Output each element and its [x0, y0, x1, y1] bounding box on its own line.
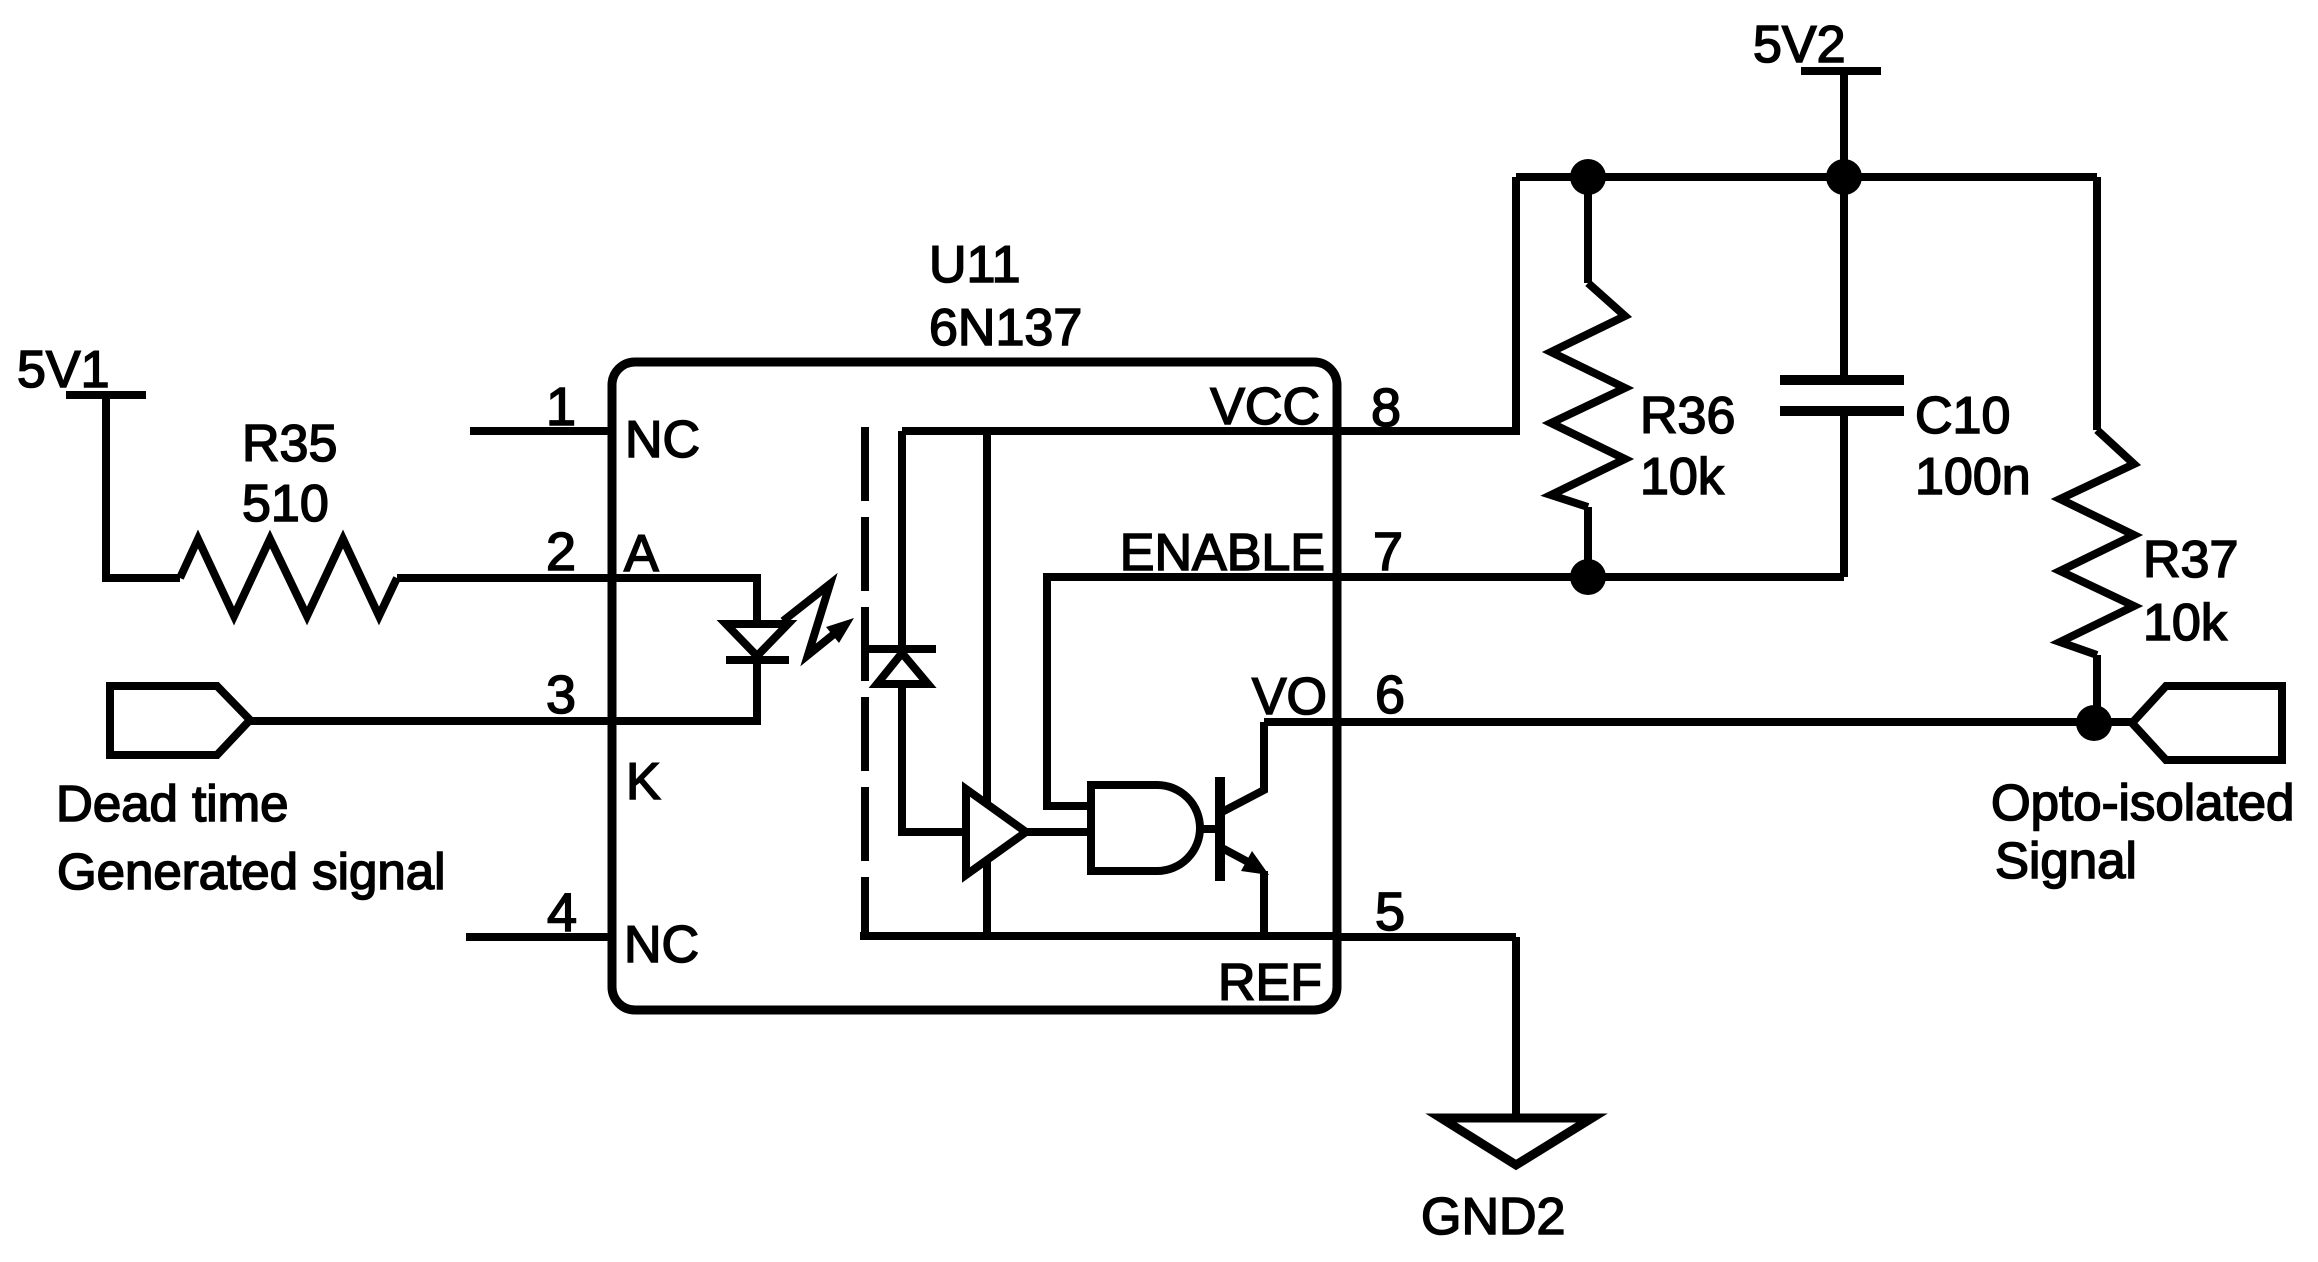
wire photodiode cathode	[898, 431, 906, 645]
svg-text:10k: 10k	[1640, 448, 1725, 506]
output flag Opto-isolated signal	[2132, 686, 2282, 760]
wire photodiode anode to buffer	[902, 684, 966, 832]
wire REF internal rail	[860, 932, 1337, 940]
pin 8 label VCC	[1210, 378, 1401, 438]
svg-text:1: 1	[546, 377, 576, 437]
svg-text:5V2: 5V2	[1753, 16, 1846, 74]
svg-text:510: 510	[242, 475, 329, 533]
wire LED cathode loop bottom	[612, 660, 757, 721]
ground GND2	[1421, 1118, 1592, 1246]
wire VO internal	[1264, 718, 1337, 726]
wire VCC internal rail	[902, 427, 1337, 435]
svg-text:Generated signal: Generated signal	[57, 843, 445, 900]
power symbol 5V2	[1753, 16, 1881, 177]
photodiode D2	[868, 649, 936, 684]
isolation barrier dashed line	[861, 427, 869, 934]
input flag Dead time	[110, 686, 250, 755]
label Dead time Generated signal	[56, 775, 445, 900]
svg-text:Opto-isolated: Opto-isolated	[1991, 774, 2294, 831]
pin 7 label ENABLE	[1120, 522, 1403, 582]
svg-text:C10: C10	[1915, 387, 2010, 445]
svg-text:GND2: GND2	[1421, 1188, 1565, 1246]
svg-text:3: 3	[546, 665, 576, 725]
svg-text:2: 2	[546, 522, 576, 582]
node junction dot rail-5V2	[1826, 159, 1862, 195]
LED light emission arrow	[783, 584, 854, 655]
wire pin 1 stub	[470, 427, 612, 435]
LED D1 of optocoupler	[726, 624, 789, 660]
svg-text:NC: NC	[625, 411, 700, 469]
pin 6 label VO	[1252, 665, 1405, 726]
wire pin 7 to C10	[1337, 573, 1844, 581]
pin 3 label	[546, 665, 661, 811]
svg-text:K: K	[626, 753, 661, 811]
wire LED anode loop top	[612, 578, 757, 624]
svg-text:R36: R36	[1640, 387, 1735, 445]
AND gate	[1091, 785, 1200, 871]
svg-text:R37: R37	[2143, 531, 2238, 589]
wire buffer to AND gate	[1026, 828, 1091, 836]
transistor Q1 output	[1220, 722, 1269, 936]
svg-text:REF: REF	[1218, 954, 1322, 1012]
buffer amplifier triangle	[966, 789, 1026, 875]
node junction dot R36-pin7	[1570, 559, 1606, 595]
wire AND output to transistor base	[1199, 825, 1222, 833]
svg-text:NC: NC	[624, 916, 699, 974]
svg-text:100n: 100n	[1915, 448, 2031, 506]
svg-text:10k: 10k	[2143, 594, 2228, 652]
op-amp U11 6N137 optocoupler box	[612, 236, 1337, 1010]
pin 2 label	[546, 522, 659, 583]
svg-text:6N137: 6N137	[929, 299, 1082, 357]
resistor R37 10k	[2060, 177, 2238, 723]
wire 5V1 to R35	[106, 395, 180, 578]
wire to ground	[1512, 937, 1520, 1118]
pin 4 label	[547, 883, 699, 974]
wire pin 6 to output flag	[1337, 718, 2132, 726]
wire pin 4 stub	[466, 933, 612, 941]
svg-text:U11: U11	[929, 236, 1021, 294]
pin 5 label REF	[1218, 882, 1405, 1012]
resistor R35	[180, 415, 397, 616]
svg-text:6: 6	[1375, 665, 1405, 725]
svg-text:4: 4	[547, 883, 577, 943]
svg-text:VO: VO	[1252, 668, 1327, 726]
svg-text:R35: R35	[242, 415, 337, 473]
node junction dot R37-pin6	[2076, 705, 2112, 741]
resistor R36 10k	[1551, 177, 1735, 577]
wire pin 5 REF out	[1337, 933, 1516, 941]
svg-text:Dead time: Dead time	[56, 775, 288, 832]
wire VCC to REF vertical	[983, 431, 991, 936]
power symbol 5V1	[17, 341, 146, 399]
wire flag to pin 3	[251, 717, 612, 725]
pin 1 label	[546, 377, 700, 469]
wire ENABLE internal	[1047, 577, 1337, 806]
svg-text:5V1: 5V1	[17, 341, 110, 399]
capacitor C10 100n	[1780, 177, 2031, 577]
node junction dot rail-R36	[1570, 159, 1606, 195]
wire R35 to pin 2	[397, 574, 612, 582]
label Opto-isolated Signal	[1991, 774, 2294, 889]
wire 5V2 top rail	[1516, 173, 2097, 181]
wire pin 8 to 5V2 rail	[1337, 177, 1516, 431]
svg-text:Signal: Signal	[1995, 832, 2137, 889]
